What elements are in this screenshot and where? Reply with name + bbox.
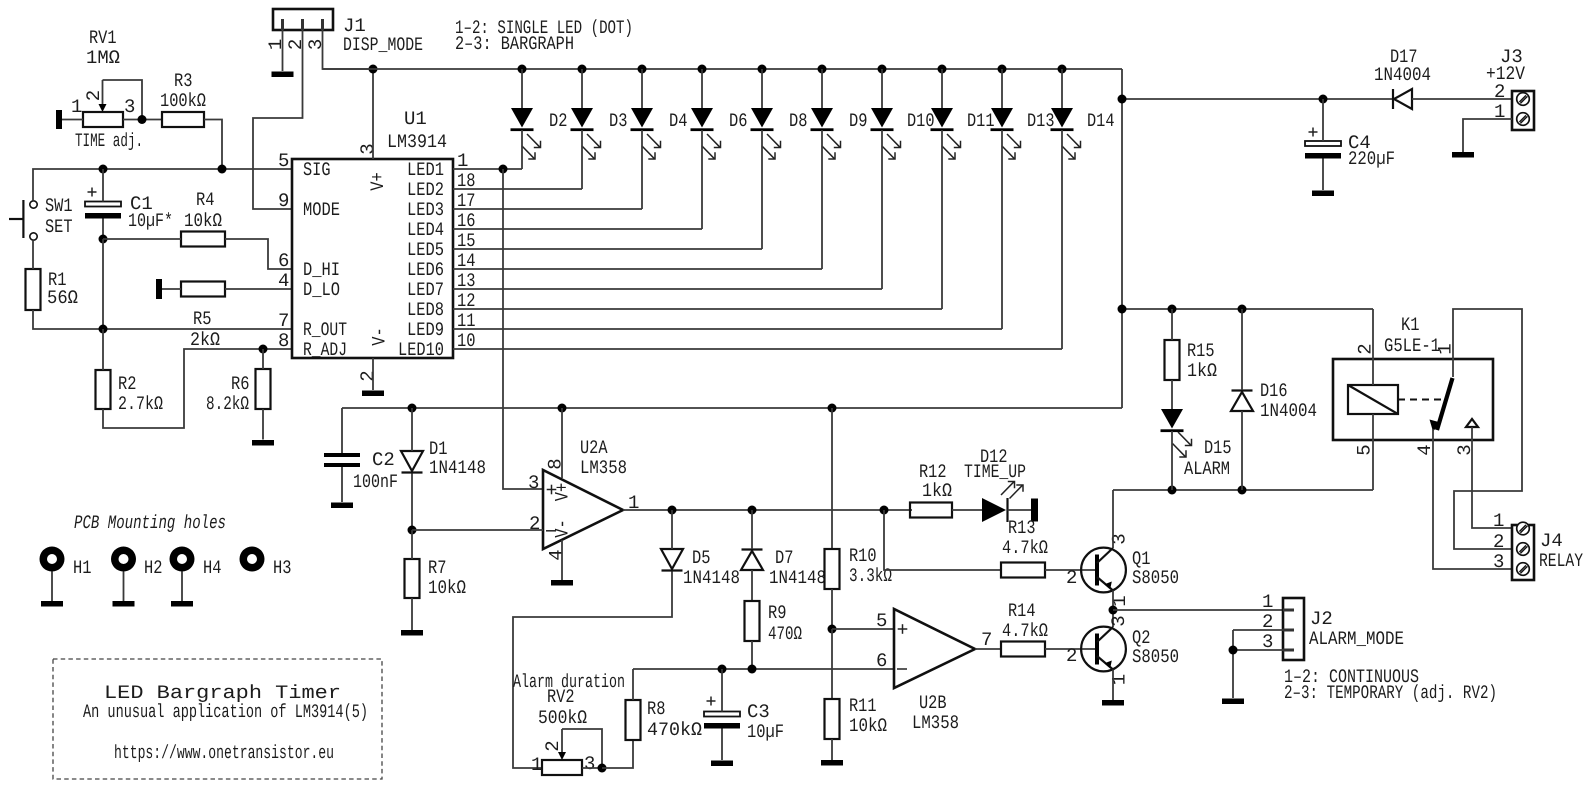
svg-text:500kΩ: 500kΩ [538,707,587,729]
LED D12 [964,446,1026,522]
mounting hole H3 [240,547,292,580]
resistor R8 [626,698,703,741]
svg-text:D14: D14 [1087,110,1115,132]
ground at R6 [252,440,274,446]
wire D12 to bar [1008,509,1032,511]
svg-text:D_LO: D_LO [303,279,340,301]
svg-text:SW1: SW1 [45,195,73,217]
node rail/D1 [408,404,417,413]
svg-text:6: 6 [278,250,289,272]
svg-text:RELAY: RELAY [1539,550,1583,572]
transistor Q2 [1066,615,1179,685]
node C1/R4 [99,235,108,244]
svg-text:LM358: LM358 [580,457,627,479]
wire J2 pin3 [1233,649,1283,651]
svg-text:R11: R11 [849,695,877,717]
wire J1 pin2 to MODE [253,30,303,209]
svg-text:3: 3 [124,96,135,118]
resistor R13 [1001,517,1048,578]
node D1/R7/U2A- [408,526,417,535]
svg-text:R15: R15 [1187,340,1215,362]
svg-text:H1: H1 [73,557,92,579]
resistor R7 [405,557,467,599]
svg-text:2: 2 [529,513,540,535]
svg-text:R7: R7 [428,557,447,579]
wire branch down to R13 [884,510,1001,570]
ground at C3 [711,761,733,767]
LED D14 [1051,65,1115,350]
node rail/V+ [369,65,378,74]
node R_ADJ/R6 [259,345,268,354]
wire R7 top [411,530,413,559]
node rail/+12V [1118,95,1127,104]
svg-text:V+: V+ [552,483,574,502]
relay K1 [1333,314,1493,456]
LED D8 [751,65,808,250]
diode D16 [1231,380,1317,422]
wire J1 pin3 to rail [323,30,374,69]
wire R15 top [1171,309,1173,340]
resistor R5 [181,282,225,352]
node SIG/R3 [218,165,227,174]
ground at U1 V- [362,391,384,397]
ground bar at R5 [156,279,162,299]
wire U1 pin11 row [453,328,1002,330]
ground at C4 [1312,191,1334,197]
capacitor C1 [85,188,173,233]
svg-text:LED4: LED4 [407,219,444,241]
ground at J3 [1452,152,1474,158]
wire U1 pin13 row [453,288,882,290]
svg-text:2: 2 [1066,645,1077,667]
mounting hole H4 [170,547,222,607]
LED D6 [691,65,748,230]
svg-text:R14: R14 [1008,600,1036,622]
svg-text:ALARM_MODE: ALARM_MODE [1309,628,1404,650]
wire C3 top [721,669,723,712]
svg-text:R5: R5 [193,308,212,330]
op-amp U2A [528,437,639,561]
node drop/alarm row [1118,305,1127,314]
node C4 tap [1319,95,1328,104]
node row/D16 bottom [1238,486,1247,495]
mounting hole H2 [111,547,163,607]
potentiometer RV1 [71,27,135,127]
svg-text:D13: D13 [1027,110,1055,132]
svg-text:3: 3 [1493,551,1504,573]
svg-text:S8050: S8050 [1132,646,1179,668]
svg-text:100kΩ: 100kΩ [160,90,206,112]
wire R8 top to row [632,669,634,700]
svg-text:H2: H2 [144,557,163,579]
svg-text:LED2: LED2 [407,179,444,201]
wire U2A pin8 [561,408,563,478]
ground at Q2 [1102,700,1124,706]
wire Q node to J2 pin1 [1113,609,1283,611]
svg-text:R_OUT: R_OUT [303,319,347,341]
resistor R10 [825,545,893,589]
node J2 pin2/pin3 [1229,646,1238,655]
ground at J1 pin1 [272,72,294,78]
svg-text:D9: D9 [849,110,868,132]
connector J1 [265,9,423,56]
wire K1 pin4 to J4 pin3 [1433,440,1512,569]
wire U2B pin5 [832,628,894,630]
wire collector row [1113,489,1373,491]
wire Q2 emitter [1112,670,1114,701]
node RV2 pin3/wiper [598,764,607,773]
wire D15 bottom [1171,431,1173,490]
terminal J3 [1486,46,1534,130]
wire node down to R_OUT row [102,239,104,329]
ground bar at RV1 pin 1 [56,110,62,129]
ground at R7 [401,630,423,636]
wire R9 bottom [751,641,753,669]
svg-text:ALARM: ALARM [1184,458,1230,480]
svg-text:1N4004: 1N4004 [1260,400,1317,422]
terminal J4 [1493,510,1583,580]
wire R11 top [831,629,833,699]
svg-text:S8050: S8050 [1132,567,1179,589]
svg-text:8: 8 [278,330,289,352]
wire U2A pin2 [412,529,543,531]
svg-text:100nF: 100nF [353,471,398,493]
svg-text:LED8: LED8 [407,299,444,321]
svg-text:V+: V+ [367,172,389,191]
svg-text:LED7: LED7 [407,279,444,301]
wire Q1 collector up [1112,490,1114,548]
svg-text:R_ADJ: R_ADJ [303,339,347,361]
wire C2 bottom [341,467,343,502]
svg-text:LED3: LED3 [407,199,444,221]
svg-text:4: 4 [546,549,568,560]
push button SW1 [9,195,73,240]
capacitor C2 [324,449,398,493]
LED D15 [1161,409,1232,480]
LED D2 [511,65,568,170]
wire C4 top [1322,99,1324,141]
op IC U1 LM3914 [278,108,476,382]
wire SW1 bottom to R1 [32,240,34,269]
svg-text:V-: V- [369,327,391,346]
svg-text:470kΩ: 470kΩ [647,719,702,741]
resistor R1 [26,269,79,310]
wire U1 pin1 row [453,168,522,170]
mounting hole H1 [40,547,92,607]
wire U1 pin15 row [453,248,762,250]
svg-text:7: 7 [981,629,992,651]
wire R12 to D12 [952,509,982,511]
svg-text:2: 2 [357,370,379,381]
node row/R15 [1168,305,1177,314]
svg-text:4.7kΩ: 4.7kΩ [1002,537,1048,559]
wire Q1 emitter to Q2 collector [1112,591,1114,628]
wire U2A pin4 [561,540,563,580]
svg-text:10µF: 10µF [747,721,784,743]
wire U1 V- pin [372,358,374,390]
node output/D5 [668,506,677,515]
op-amp U2B [876,609,992,734]
resistor R11 [825,695,888,739]
svg-text:2–3: BARGRAPH: 2–3: BARGRAPH [455,33,574,55]
wire U1 pin12 row [453,308,942,310]
svg-text:1: 1 [1493,510,1504,532]
svg-text:LM358: LM358 [912,712,959,734]
svg-text:1kΩ: 1kΩ [922,480,952,502]
node row/C3 [718,665,727,674]
svg-text:D8: D8 [789,110,808,132]
svg-text:H4: H4 [203,557,222,579]
wire D7 to R9 [751,570,753,601]
wire K1 pin5 down [1372,440,1374,490]
wire right drop from rail [1121,69,1123,408]
svg-text:R10: R10 [849,545,877,567]
wire RV1 wiper jog [103,80,143,120]
wire K1 pin2 up [1372,309,1374,359]
resistor R15 [1165,340,1218,382]
svg-text:1: 1 [265,39,287,50]
svg-text:3: 3 [357,143,379,154]
node rail/U2A V+ [558,404,567,413]
title block [53,659,382,779]
wire C1 top [102,169,104,202]
wire D16 bottom [1241,411,1243,490]
wire C1 node to R4 [103,238,181,240]
svg-text:2.7kΩ: 2.7kΩ [118,393,163,415]
wire R7 bottom [411,598,413,630]
wire SIG row [33,169,292,201]
svg-text:3: 3 [1109,533,1131,544]
wire J2 ground column [1232,630,1234,698]
svg-text:U2B: U2B [919,692,947,714]
wire K1 pin3 to J4 pin1 [1472,440,1512,528]
svg-text:1N4148: 1N4148 [769,567,826,589]
svg-text:5: 5 [278,150,289,172]
LED D4 [631,65,688,210]
svg-text:C3: C3 [747,701,770,723]
svg-text:LED6: LED6 [407,259,444,281]
svg-text:2–3: TEMPORARY (adj. RV2): 2–3: TEMPORARY (adj. RV2) [1284,682,1497,704]
node pin1/U2A tap [499,165,508,174]
diode D17 [1374,46,1431,109]
wire R15 to D15 [1171,380,1173,409]
wire R4 to D_HI [225,239,292,269]
svg-text:An unusual application of LM39: An unusual application of LM3914(5) [83,701,368,723]
wire U1 pin18 row [453,188,582,190]
ground bar at D12 [1031,499,1038,522]
svg-text:1kΩ: 1kΩ [1187,360,1217,382]
svg-text:56Ω: 56Ω [47,287,78,309]
capacitor C4 [1305,128,1395,171]
node row/R9 [748,665,757,674]
LED D10 [871,65,935,290]
wire RV2 wiper jog [562,729,602,768]
diode D5 [661,547,740,589]
svg-text:D6: D6 [729,110,748,132]
wire U2A output row [623,509,912,511]
svg-text:2: 2 [1494,81,1505,103]
svg-text:2: 2 [1493,531,1504,553]
svg-text:R3: R3 [174,70,193,92]
potentiometer RV2 [513,671,625,776]
svg-text:D5: D5 [692,547,711,569]
svg-text:D4: D4 [669,110,688,132]
LED D11 [931,65,995,310]
wire R10 bottom [831,589,833,629]
svg-text:4: 4 [278,270,289,292]
ground at J2 [1222,699,1244,705]
wire U1 V+ pin [372,69,374,159]
svg-text:1: 1 [531,754,542,776]
svg-text:2: 2 [83,90,105,101]
svg-text:1N4148: 1N4148 [683,567,740,589]
wire node to R2 [102,329,104,370]
wire U1 pin16 row [453,228,702,230]
svg-text:TIME_UP: TIME_UP [964,461,1026,483]
resistor R2 [96,370,164,415]
svg-text:D7: D7 [775,547,794,569]
node R10/R11/U2B+ [828,625,837,634]
wire D5 top [671,510,673,549]
svg-text:3: 3 [584,753,595,775]
wire D17 to J3 [1412,98,1512,100]
LED D3 [571,65,628,190]
svg-text:220µF: 220µF [1348,148,1395,170]
capacitor C3 [704,697,784,744]
wire RV1 pin1 to body [62,119,83,121]
node R_OUT/C1 column [99,325,108,334]
svg-text:RV2: RV2 [547,686,575,708]
svg-text:1: 1 [71,96,82,118]
diode D1 [401,438,486,479]
wire LED1 tap down to U2A+ [503,169,543,489]
wire R10 top feed [831,408,833,549]
svg-text:470Ω: 470Ω [768,623,802,645]
resistor R6 [206,369,271,415]
svg-text:D11: D11 [967,110,995,132]
wire J2 pin2 [1233,629,1283,631]
LED D13 [991,65,1055,330]
svg-text:https://www.onetransistor.eu: https://www.onetransistor.eu [114,742,334,764]
svg-text:D16: D16 [1260,380,1288,402]
wire R13 to Q1 base [1045,569,1095,571]
wire D1 bottom [411,474,413,531]
wire R11 bottom [831,739,833,760]
wire C2 top [341,408,343,453]
wire C3 bottom [721,729,723,761]
svg-text:10kΩ: 10kΩ [428,577,466,599]
svg-text:G5LE-1: G5LE-1 [1384,335,1440,357]
svg-text:TIME adj.: TIME adj. [75,130,143,152]
svg-text:LED5: LED5 [407,239,444,261]
wire K1 pin1 loop to J4 pin2 [1453,309,1522,549]
svg-text:D15: D15 [1204,437,1232,459]
svg-text:1: 1 [1109,674,1131,685]
svg-text:LED1: LED1 [407,159,444,181]
ground at U2A pin4 [551,580,573,586]
svg-text:3.3kΩ: 3.3kΩ [849,565,892,587]
wire C4 bottom [1322,159,1324,191]
wire timing row [633,668,894,670]
node rail/R10 [828,404,837,413]
wire D1 top [411,408,413,451]
svg-text:R13: R13 [1008,517,1036,539]
svg-text:K1: K1 [1401,314,1420,336]
svg-text:D_HI: D_HI [303,259,340,281]
svg-text:2: 2 [1066,567,1077,589]
svg-text:4.7kΩ: 4.7kΩ [1002,620,1048,642]
wire D7 top [751,510,753,549]
wire R2 bottom to R_ADJ row [103,349,292,428]
wire C1 bottom to node [102,219,104,240]
wire U1 pin10 row [453,348,1062,350]
svg-text:10µF*: 10µF* [128,210,173,232]
resistor R4 [181,189,225,247]
wire R_OUT row [33,310,292,329]
svg-text:U2A: U2A [580,437,608,459]
svg-text:LED10: LED10 [398,339,444,361]
svg-text:R9: R9 [768,602,787,624]
svg-text:5: 5 [876,610,887,632]
wire node to R8 [602,740,633,768]
svg-text:PCB Mounting holes: PCB Mounting holes [74,512,226,534]
node row/D16 [1238,305,1247,314]
wire U2B output [975,648,1001,650]
svg-text:R6: R6 [231,373,250,395]
wire RV1 pin3 to junction [123,119,162,121]
svg-text:R8: R8 [647,698,666,720]
svg-text:R4: R4 [196,189,215,211]
connector J2 [1262,591,1404,660]
svg-text:10kΩ: 10kΩ [184,210,222,232]
svg-text:9: 9 [278,190,289,212]
svg-text:2kΩ: 2kΩ [190,329,220,351]
wire U1 pin14 row [453,268,822,270]
wire V+ distribution rail [342,407,1122,409]
svg-text:1MΩ: 1MΩ [86,47,120,69]
svg-text:D3: D3 [609,110,628,132]
svg-text:RV1: RV1 [89,27,117,49]
node SIG/C1 [99,165,108,174]
svg-text:D10: D10 [907,110,935,132]
wire D16 top [1241,309,1243,390]
svg-text:J2: J2 [1310,608,1333,630]
svg-text:1N4148: 1N4148 [429,457,486,479]
svg-text:LED9: LED9 [407,319,444,341]
ground at C2 [331,503,353,509]
svg-text:DISP_MODE: DISP_MODE [343,34,423,56]
wire R5 leads [162,288,181,290]
svg-text:SET: SET [45,216,73,238]
wire R6 top [262,349,264,369]
svg-text:3: 3 [305,39,327,50]
svg-text:H3: H3 [273,557,292,579]
svg-text:MODE: MODE [303,199,340,221]
svg-text:U1: U1 [404,108,427,130]
wire R3 right to SIG [204,120,222,170]
wire U1 pin17 row [453,208,642,210]
svg-text:1N4004: 1N4004 [1374,64,1431,86]
wire R6 bottom [262,409,264,440]
svg-text:C2: C2 [372,449,395,471]
wire alarm top row [1122,308,1373,310]
resistor R12 [910,461,952,518]
svg-text:J4: J4 [1540,530,1563,552]
diode D7 [741,547,826,589]
svg-text:10kΩ: 10kΩ [849,715,887,737]
svg-text:SIG: SIG [303,159,331,181]
wire D5 to RV2 [513,572,672,769]
